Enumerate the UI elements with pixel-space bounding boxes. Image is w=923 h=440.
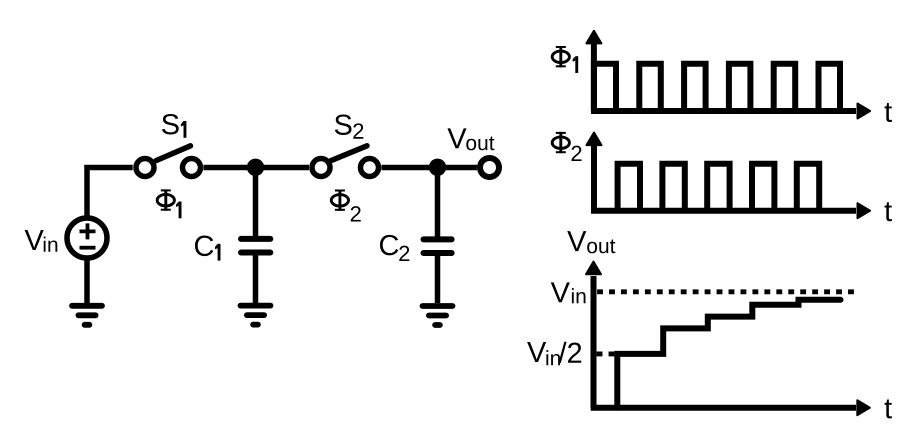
minus sign bbox=[80, 246, 96, 250]
label Vin/2 subscript bbox=[546, 350, 560, 365]
wire S2 to Vout bbox=[382, 165, 478, 171]
phi2 x-axis arrowhead bbox=[858, 203, 871, 218]
label C2 bbox=[380, 235, 398, 256]
switch S1 right contact bbox=[183, 159, 201, 177]
staircase waveform bbox=[617, 300, 840, 408]
wire junction1 to C1 bbox=[253, 167, 259, 236]
label t vout bbox=[885, 399, 892, 418]
vout y-axis bbox=[591, 276, 597, 408]
label S1 subscript bbox=[181, 121, 187, 138]
wire S1 to S2 bbox=[204, 165, 310, 171]
label Vout circuit bbox=[447, 128, 466, 148]
phi2 x-axis bbox=[591, 208, 856, 214]
output terminal Vout circle bbox=[480, 158, 499, 177]
wire C2 to ground bbox=[435, 256, 441, 304]
label Vin/2 slash2 bbox=[559, 342, 582, 363]
switch S1 left contact bbox=[136, 159, 154, 177]
label S2 bbox=[335, 114, 352, 135]
label Vout plot subscript bbox=[587, 240, 615, 254]
ground under C2 bbox=[423, 306, 453, 325]
voltage source V1 circle bbox=[67, 218, 107, 258]
label t phi1 bbox=[885, 103, 892, 122]
label Vout circuit subscript bbox=[466, 137, 494, 151]
switch S2 left contact bbox=[312, 159, 330, 177]
node junction 1 bbox=[247, 159, 264, 176]
phi1 x-axis bbox=[591, 108, 856, 114]
capacitor C1 plates bbox=[241, 239, 270, 253]
phi2 y-axis arrowhead bbox=[587, 133, 602, 146]
label Vin bbox=[25, 230, 44, 250]
label Vin/2 bbox=[527, 342, 546, 362]
label C1 subscript bbox=[215, 244, 221, 261]
vout x-axis bbox=[591, 405, 856, 411]
label Phi1 plot bbox=[552, 46, 569, 67]
node junction 2 bbox=[429, 159, 446, 176]
vout y-axis arrowhead bbox=[586, 262, 601, 275]
wire Vin top bbox=[87, 168, 133, 306]
switch S2 lever bbox=[331, 146, 368, 161]
phi2 y-axis bbox=[591, 144, 597, 211]
label Phi2 circuit subscript bbox=[351, 206, 361, 221]
label t phi2 bbox=[885, 202, 892, 221]
label C1 bbox=[195, 236, 213, 257]
label Phi1 plot subscript bbox=[573, 56, 579, 73]
ground under Vin bbox=[72, 306, 102, 325]
label S1 bbox=[162, 114, 179, 135]
label Phi1 circuit subscript bbox=[176, 202, 182, 219]
vout x-axis arrowhead bbox=[857, 400, 870, 415]
label S2 subscript bbox=[353, 123, 363, 138]
ground under C1 bbox=[241, 306, 271, 325]
label Vin subscript bbox=[44, 237, 58, 252]
label Phi1 circuit bbox=[157, 189, 174, 210]
label Phi2 circuit bbox=[331, 190, 348, 211]
dashed Vin level line bbox=[597, 289, 855, 294]
phi2 waveform bbox=[618, 164, 820, 211]
label Vin plot subscript bbox=[572, 288, 586, 303]
label Phi2 plot bbox=[552, 132, 569, 153]
dashed Vin/2 tick bbox=[597, 351, 615, 356]
phi1 waveform bbox=[594, 64, 840, 111]
wire junction2 to C2 bbox=[435, 167, 441, 237]
label Phi2 plot subscript bbox=[572, 146, 582, 161]
wire C1 to ground bbox=[253, 255, 259, 303]
phi1 y-axis arrowhead bbox=[586, 31, 601, 44]
switch S1 lever bbox=[156, 146, 191, 161]
label C2 subscript bbox=[399, 246, 409, 261]
label Vout plot bbox=[567, 231, 586, 251]
phi1 y-axis bbox=[591, 42, 597, 111]
phi1 x-axis arrowhead bbox=[858, 104, 871, 119]
plus sign bbox=[80, 223, 96, 239]
label Vin plot bbox=[551, 282, 570, 302]
capacitor C2 plates bbox=[424, 239, 452, 253]
switch S2 right contact bbox=[361, 159, 379, 177]
